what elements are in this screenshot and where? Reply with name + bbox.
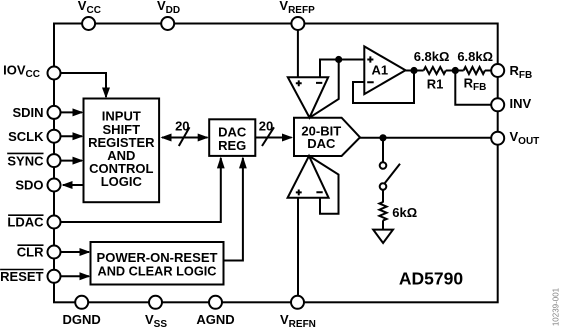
wire A1 output to R1 <box>406 70 424 72</box>
wire RESET <box>54 275 89 277</box>
svg-text:6.8kΩ: 6.8kΩ <box>414 49 450 64</box>
arrowhead POR up <box>239 156 247 168</box>
wire SDIN <box>54 111 82 113</box>
node R1-RFB <box>452 67 459 74</box>
pin RFB <box>491 63 532 81</box>
switch blade <box>385 164 401 184</box>
pin VOUT <box>491 129 539 147</box>
block DAC REG <box>209 119 255 156</box>
svg-text:DGND: DGND <box>63 312 101 327</box>
wire SYNC <box>54 160 82 162</box>
arrowhead into input logic top <box>102 88 110 99</box>
op-amp A1 <box>364 46 405 94</box>
ground <box>373 230 393 243</box>
resistor RFB 6.8k <box>464 67 485 74</box>
svg-text:10239-001: 10239-001 <box>552 287 561 326</box>
arrowhead CLR <box>80 248 91 256</box>
wire VREFP buffer feedback <box>310 60 339 118</box>
pin CLR <box>17 245 61 260</box>
pin VDD <box>157 0 180 30</box>
wire to switch <box>382 138 384 163</box>
wire R1 to RFB <box>446 70 464 72</box>
node VOUT-switch <box>379 134 386 141</box>
pin VREFN <box>280 296 316 330</box>
svg-text:SDO: SDO <box>15 178 43 193</box>
svg-text:INV: INV <box>510 96 532 111</box>
wire node to INV pin <box>455 71 493 105</box>
bus 20 input register to DAC REG <box>162 137 208 139</box>
wire VREFN stem to buffer <box>297 198 299 302</box>
wire CLR <box>54 251 89 253</box>
pin INV <box>491 96 531 112</box>
pin SDIN <box>12 105 60 120</box>
arrowhead bus2 right <box>282 134 293 142</box>
resistor R1 6.8k <box>424 67 446 74</box>
svg-text:AGND: AGND <box>196 312 234 327</box>
pin SCLK <box>8 129 60 144</box>
arrowhead bus1 right <box>198 134 209 142</box>
arrowhead RESET <box>80 272 91 280</box>
pin VCC <box>78 0 101 30</box>
wire IOVCC to input logic <box>54 73 106 97</box>
buffer amp VREFN <box>288 156 329 198</box>
svg-text:20: 20 <box>175 119 189 134</box>
wire LDAC to DAC REG <box>54 158 221 222</box>
pin VSS <box>145 296 167 330</box>
block input shift register and control logic <box>84 99 160 203</box>
arrowhead SDO out <box>62 181 73 189</box>
bus slash 1 <box>179 127 190 146</box>
svg-text:RESET: RESET <box>0 269 43 284</box>
svg-text:REG: REG <box>218 138 246 153</box>
node buffer to A1 <box>335 56 342 63</box>
switch <box>380 162 387 169</box>
wire A1 feedback loop <box>353 71 414 104</box>
bus slash 2 <box>262 127 274 146</box>
pin RESET <box>0 269 60 284</box>
chip boundary <box>54 24 498 303</box>
wire VREFN buffer feedback <box>309 156 339 214</box>
svg-text:SYNC: SYNC <box>7 153 44 168</box>
pin SYNC <box>7 153 60 168</box>
svg-text:DAC: DAC <box>307 136 336 151</box>
wire RFB to pin <box>485 70 493 72</box>
wire SCLK <box>54 135 82 137</box>
arrowhead SDIN <box>73 108 84 116</box>
bus 20 DAC REG to DAC <box>255 137 291 139</box>
wire DAC output to VOUT <box>358 137 493 139</box>
node A1 output <box>410 67 417 74</box>
arrowhead SYNC <box>73 157 84 165</box>
wire VREFP buffer inverting input to A1 <box>320 60 364 78</box>
svg-text:6kΩ: 6kΩ <box>392 205 417 220</box>
pin AGND <box>196 296 234 327</box>
wire SDO <box>63 184 84 186</box>
wire VREFP stem <box>297 24 299 78</box>
pin IOVCC <box>3 62 60 80</box>
svg-text:CLR: CLR <box>17 245 44 260</box>
wire POR logic to DAC REG <box>224 158 243 261</box>
arrowhead LDAC up <box>217 156 225 168</box>
svg-text:AND CLEAR LOGIC: AND CLEAR LOGIC <box>98 263 218 278</box>
svg-text:20: 20 <box>259 119 273 134</box>
pin LDAC <box>7 215 60 230</box>
20-bit DAC <box>294 118 360 156</box>
svg-text:R1: R1 <box>427 77 444 92</box>
svg-text:LDAC: LDAC <box>7 215 44 230</box>
wire switch to resistor <box>382 190 384 203</box>
svg-text:SCLK: SCLK <box>8 129 44 144</box>
pin VREFP <box>279 0 315 30</box>
svg-text:AD5790: AD5790 <box>399 268 463 288</box>
svg-text:6.8kΩ: 6.8kΩ <box>457 49 493 64</box>
svg-text:LOGIC: LOGIC <box>101 174 143 189</box>
pin SDO <box>15 178 60 193</box>
svg-text:A1: A1 <box>372 62 389 77</box>
pin DGND <box>63 296 101 327</box>
wire resistor to ground <box>382 220 384 230</box>
resistor 6k <box>379 202 386 220</box>
buffer amp VREFP <box>288 77 328 117</box>
arrowhead bus1 left <box>161 134 172 142</box>
arrowhead SCLK <box>73 132 84 140</box>
svg-text:SDIN: SDIN <box>12 105 43 120</box>
block power-on-reset and clear logic <box>91 242 224 285</box>
